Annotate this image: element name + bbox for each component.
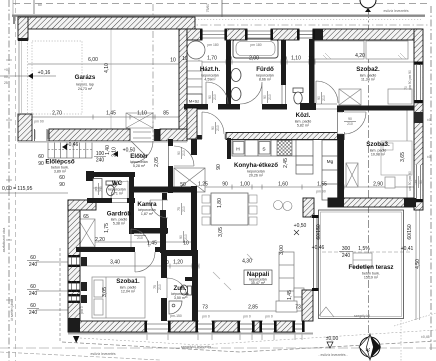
svg-text:1,55: 1,55	[317, 182, 327, 188]
svg-text:3,50 m²: 3,50 m²	[174, 296, 187, 300]
svg-text:3,00: 3,00	[279, 245, 285, 255]
svg-text:1,75: 1,75	[104, 223, 110, 233]
dim line gardrob y242	[80, 241, 196, 243]
svg-text:1,10: 1,10	[137, 111, 147, 117]
door furdo-niche gap	[282, 85, 286, 104]
svg-text:um 90 pm 90: um 90 pm 90	[408, 171, 412, 191]
svg-text:S: S	[262, 147, 265, 153]
svg-text:esővíz levezetés: esővíz levezetés	[383, 9, 408, 13]
svg-text:210: 210	[182, 150, 186, 156]
wall top seg1	[187, 29, 202, 40]
svg-text:pm-150: pm-150	[170, 314, 182, 318]
corner vline top left	[12, 0, 14, 16]
marker triangle SW	[73, 336, 79, 343]
basin unit wc	[93, 179, 102, 199]
wall szoba3 bottom cap	[328, 198, 344, 207]
garage door lines	[18, 40, 20, 113]
svg-text:20,26 m²: 20,26 m²	[249, 174, 264, 178]
svg-text:90: 90	[222, 182, 228, 188]
svg-text:Fedetlen terasz: Fedetlen terasz	[348, 264, 393, 271]
svg-text:Fürdő: Fürdő	[256, 66, 274, 73]
svg-text:1,40: 1,40	[105, 145, 111, 155]
svg-text:60/150: 60/150	[316, 224, 322, 240]
wall kamra north	[133, 187, 196, 193]
door gap szoba3	[338, 112, 345, 134]
svg-text:65: 65	[83, 214, 89, 220]
wall wc south / gardrob north	[87, 198, 135, 203]
kitchen corner cells	[296, 156, 313, 174]
window bottom 240	[237, 321, 254, 332]
wall front left segment	[49, 129, 130, 141]
dim line left windows horiz	[36, 261, 68, 263]
wall top seg3	[271, 29, 299, 40]
dim line terrace x416	[415, 210, 417, 320]
radiators left wall	[81, 257, 87, 303]
wall wc north	[92, 172, 135, 177]
diagonal terrain line 1	[62, 341, 436, 352]
svg-text:+0,50: +0,50	[294, 223, 307, 229]
desk szoba3	[385, 177, 395, 188]
wall garage left lower	[18, 114, 32, 141]
svg-text:4,20: 4,20	[355, 53, 365, 59]
svg-text:210: 210	[216, 125, 220, 131]
svg-text:10,98 m²: 10,98 m²	[371, 153, 386, 157]
svg-text:szegély kő: szegély kő	[354, 314, 370, 318]
svg-text:210: 210	[158, 284, 162, 290]
svg-text:- szegélykő levezetés -: - szegélykő levezetés -	[179, 345, 214, 349]
svg-text:+0,: +0,	[4, 68, 9, 72]
svg-text:60: 60	[30, 284, 36, 290]
wall eloter east	[168, 139, 173, 193]
door gardrob arc	[131, 229, 149, 247]
svg-text:10: 10	[183, 241, 189, 247]
svg-text:90: 90	[348, 117, 352, 121]
garage interior dotted inset	[32, 41, 82, 114]
wall gardrob top cap	[68, 200, 96, 210]
door hazth	[206, 82, 228, 104]
eave stub left	[13, 15, 15, 24]
svg-text:+0,46: +0,46	[66, 142, 79, 148]
dark panel right wall	[415, 112, 423, 123]
svg-text:aszfaltozott utca: aszfaltozott utca	[2, 228, 6, 253]
dim line garage vertical 4.10	[110, 29, 112, 129]
boiler hazth	[187, 41, 205, 59]
wall garage left upper	[18, 17, 28, 40]
sink furdo 1	[231, 69, 241, 82]
svg-text:90: 90	[211, 126, 215, 130]
property ticks	[6, 60, 12, 300]
toilet wc room	[106, 181, 115, 196]
wall right	[414, 29, 423, 210]
door zuh arc	[167, 278, 187, 298]
svg-text:1,80: 1,80	[217, 198, 223, 208]
wall gardrob east	[160, 210, 166, 253]
wall stub eloter NE	[191, 139, 197, 155]
thresholds	[35, 104, 343, 141]
svg-text:±0,: ±0,	[427, 118, 432, 122]
svg-text:3,65: 3,65	[400, 152, 406, 162]
svg-text:1,20: 1,20	[173, 260, 183, 266]
wall front right segment	[160, 129, 187, 141]
svg-text:2,90: 2,90	[373, 182, 383, 188]
dim line garage 6.00	[28, 63, 179, 65]
window bottom 262	[259, 321, 276, 332]
svg-text:10: 10	[192, 260, 198, 266]
svg-text:Garázs: Garázs	[75, 74, 96, 81]
svg-text:240: 240	[29, 310, 38, 316]
svg-text:10: 10	[281, 56, 287, 62]
terrace door glazing	[314, 217, 318, 290]
wall kozl/szoba2 west	[300, 103, 316, 110]
wall duct hazth south	[187, 108, 197, 139]
svg-text:3,05: 3,05	[102, 287, 108, 297]
bathtub	[233, 39, 278, 58]
window top 202	[202, 31, 225, 38]
footing shadow front	[18, 141, 187, 143]
svg-text:75/60: 75/60	[206, 4, 210, 13]
wall kitchen/szoba3	[338, 139, 345, 198]
window bottom 295	[292, 321, 304, 332]
svg-text:15,19 m²: 15,19 m²	[364, 276, 379, 280]
eave line top	[12, 15, 425, 17]
wall szoba2 bottom	[337, 106, 414, 111]
dim line left x36 vertical	[59, 248, 61, 342]
svg-text:um: um	[414, 179, 418, 184]
wall szoba1 north	[76, 247, 135, 252]
svg-text:M+Sz: M+Sz	[189, 99, 199, 104]
svg-text:90: 90	[177, 151, 181, 155]
svg-text:Kamra: Kamra	[137, 201, 157, 208]
svg-text:12,04 m²: 12,04 m²	[121, 290, 136, 294]
bed szoba2 twin	[311, 41, 408, 59]
shelves hazth	[187, 61, 202, 95]
svg-text:1,87 m²: 1,87 m²	[141, 212, 154, 216]
stools	[274, 201, 283, 210]
svg-text:750: 750	[99, 186, 103, 192]
wall wc east	[129, 172, 134, 198]
svg-text:+0,50: +0,50	[123, 148, 136, 154]
svg-text:pm 0: pm 0	[202, 315, 210, 319]
wall post szoba1/zuh	[155, 247, 162, 252]
wall cap garage left pier	[18, 38, 28, 41]
window right szoba2	[415, 62, 423, 104]
door front	[131, 141, 153, 163]
svg-text:100: 100	[96, 151, 105, 157]
plot dashed line top	[13, 3, 428, 5]
room label nappali boxed	[244, 270, 272, 285]
svg-text:50: 50	[180, 182, 186, 188]
svg-text:4,30: 4,30	[242, 259, 252, 265]
svg-text:00: 00	[4, 75, 8, 79]
svg-text:210: 210	[213, 94, 217, 100]
svg-text:- esővíz levezetés -: - esővíz levezetés -	[318, 353, 347, 357]
washer M+Sz	[186, 94, 202, 107]
eave line terrace right	[419, 207, 421, 320]
svg-text:2,85: 2,85	[248, 305, 258, 311]
door kitchen	[202, 112, 224, 134]
front door post	[154, 129, 160, 141]
svg-text:90: 90	[317, 96, 321, 100]
wall stub terrace door north	[303, 198, 314, 217]
svg-text:5,28 m²: 5,28 m²	[133, 164, 146, 168]
window top 247	[247, 31, 271, 38]
svg-text:210: 210	[322, 95, 326, 101]
door eloter arc	[174, 146, 194, 166]
dotted vertical terrace edge ext	[400, 320, 402, 361]
svg-text:Szoba1.: Szoba1.	[116, 278, 140, 285]
wall bit kitchen NW	[197, 135, 202, 140]
wall kamra east	[162, 193, 167, 234]
entry steps garage side	[126, 113, 153, 128]
wall bottom segment	[252, 321, 262, 332]
wall nappali SE corner	[302, 290, 313, 321]
wall zuh west lower	[161, 298, 167, 321]
svg-text:210: 210	[268, 94, 272, 100]
svg-text:3,40: 3,40	[110, 260, 120, 266]
compass bottom	[359, 334, 381, 360]
door szoba2	[316, 81, 338, 103]
svg-text:10: 10	[308, 56, 314, 62]
svg-text:75: 75	[153, 285, 157, 289]
eave dotted top	[18, 19, 421, 21]
shower zuh	[169, 301, 182, 314]
svg-text:Zuh.: Zuh.	[173, 285, 186, 292]
svg-text:210: 210	[347, 122, 353, 126]
diagonal terrain line 3	[0, 352, 160, 360]
svg-text:pm 0: pm 0	[80, 306, 84, 314]
top tick x34	[33, 0, 35, 14]
svg-text:2,45: 2,45	[283, 158, 289, 168]
door szoba1 arc	[135, 252, 155, 272]
svg-text:Közl.: Közl.	[296, 112, 311, 119]
terrace step marks bottom	[318, 307, 334, 317]
svg-text:60: 60	[30, 303, 36, 309]
wall bottom segment	[274, 321, 295, 332]
svg-text:1,60: 1,60	[278, 182, 288, 188]
svg-text:2,00: 2,00	[249, 56, 259, 62]
svg-text:10: 10	[226, 56, 232, 62]
window left wall 281	[69, 281, 80, 292]
svg-text:4,10: 4,10	[104, 63, 110, 73]
svg-text:210: 210	[182, 206, 186, 212]
svg-text:10: 10	[170, 58, 176, 64]
terrace steps	[353, 253, 372, 267]
wall kamra west	[129, 193, 134, 234]
door wc	[111, 181, 128, 198]
svg-text:73: 73	[202, 305, 208, 311]
svg-text:1,00: 1,00	[240, 182, 250, 188]
wall szoba3 bottom cap right	[404, 198, 416, 207]
svg-text:+0,16: +0,16	[38, 70, 51, 76]
svg-text:90: 90	[179, 235, 183, 239]
svg-text:300: 300	[342, 246, 351, 252]
svg-text:pm 180: pm 180	[207, 43, 218, 47]
toilet niche	[293, 88, 303, 104]
door gap kamra	[163, 200, 168, 218]
dim line upper rooms y62	[187, 61, 414, 63]
toilet zuh	[180, 285, 191, 295]
svg-text:5,82 m²: 5,82 m²	[297, 124, 310, 128]
door gap eloter	[169, 146, 174, 166]
wall niche/szoba2	[309, 39, 315, 110]
wall zuh west upper	[161, 250, 167, 278]
svg-text:4,59m²: 4,59m²	[204, 78, 216, 82]
svg-text:60: 60	[38, 154, 44, 160]
desk szoba2	[339, 89, 361, 105]
svg-text:75: 75	[138, 231, 142, 235]
svg-text:90: 90	[208, 95, 212, 99]
svg-text:2,05: 2,05	[154, 157, 160, 167]
window top 299	[299, 31, 313, 38]
svg-text:±0,: ±0,	[427, 155, 432, 159]
center axis vertical	[368, 10, 370, 333]
svg-text:6,00: 6,00	[88, 57, 98, 63]
svg-text:90: 90	[263, 95, 267, 99]
svg-text:24,73 m²: 24,73 m²	[78, 87, 93, 91]
cabinet eloter	[174, 168, 205, 192]
dim line szoba1 y266	[80, 265, 199, 267]
wall corridor east	[191, 186, 197, 253]
dresser szoba2 right	[388, 89, 412, 104]
window left wall 294	[69, 294, 80, 303]
footing shadow bottom	[68, 333, 313, 335]
svg-text:240: 240	[29, 262, 38, 268]
wall stub kitchen west	[227, 138, 231, 159]
svg-text:1,45: 1,45	[106, 111, 116, 117]
svg-text:Szoba3.: Szoba3.	[366, 141, 390, 148]
window bottom 147	[144, 321, 170, 332]
window left wall 255	[69, 255, 80, 267]
secondary line left	[15, 0, 17, 361]
svg-text:2,20: 2,20	[95, 237, 105, 243]
svg-text:+0,41: +0,41	[401, 246, 414, 252]
wall top seg4	[313, 29, 421, 40]
svg-text:Házt.h.: Házt.h.	[200, 66, 221, 73]
svg-text:60/150: 60/150	[407, 224, 413, 240]
door szoba3	[344, 112, 366, 134]
garage side door jambs	[35, 129, 48, 141]
north symbol top	[360, 0, 376, 12]
svg-text:60: 60	[38, 3, 42, 7]
wall top seg2	[225, 29, 247, 40]
property line left	[8, 0, 10, 361]
svg-text:±0,00: ±0,00	[326, 336, 339, 342]
svg-text:pm 180: pm 180	[250, 43, 261, 47]
sofa nappali	[276, 252, 304, 312]
svg-text:1,71 m²: 1,71 m²	[111, 192, 124, 196]
svg-text:±0,45: ±0,45	[421, 335, 430, 339]
garage axis dashdot	[152, 4, 154, 140]
window reveal ticks bottom	[147, 332, 302, 340]
dim line garage bottom 2.70/1.45/1.10/85	[28, 116, 179, 118]
svg-text:5,38 m²: 5,38 m²	[113, 222, 126, 226]
svg-text:90: 90	[216, 164, 222, 170]
svg-text:+0,46: +0,46	[312, 245, 325, 251]
svg-text:8,66 m²: 8,66 m²	[259, 78, 272, 82]
svg-text:240: 240	[29, 291, 38, 297]
svg-text:85: 85	[163, 111, 169, 117]
svg-text:30,47 m²: 30,47 m²	[251, 281, 266, 285]
dim line left 0.00	[0, 192, 68, 194]
svg-text:60: 60	[59, 175, 65, 181]
svg-text:esővíz levezetés: esővíz levezetés	[90, 352, 115, 356]
svg-text:2,10: 2,10	[112, 147, 118, 157]
wall zuh east / nappali west	[192, 250, 198, 321]
bed szoba1	[92, 277, 145, 318]
door gap wc south	[112, 198, 127, 202]
wall kitchen north	[226, 133, 344, 140]
svg-text:90: 90	[38, 161, 44, 167]
svg-text:3,05: 3,05	[218, 227, 224, 237]
wall bottom segment	[78, 321, 147, 332]
window bottom 198	[195, 321, 214, 332]
svg-text:10: 10	[337, 182, 343, 188]
roof axis top	[187, 24, 428, 26]
wall left lower	[68, 200, 80, 332]
wall kozl/szoba3	[337, 110, 344, 139]
wall joint I3 top	[315, 29, 323, 40]
stairs elolepcso	[48, 141, 92, 158]
svg-text:60: 60	[30, 255, 36, 261]
svg-text:25: 25	[4, 81, 8, 85]
svg-text:210: 210	[184, 234, 188, 240]
wall hazth bottom w	[184, 104, 208, 110]
svg-text:210: 210	[137, 236, 143, 240]
wall garage right	[179, 29, 187, 129]
svg-text:11,34 m²: 11,34 m²	[361, 78, 376, 82]
svg-text:73: 73	[295, 305, 301, 311]
wall bottom segment	[212, 321, 240, 332]
door gap right wall	[415, 165, 423, 202]
svg-text:pm 0: pm 0	[265, 315, 273, 319]
wardrobe gardrob	[78, 219, 95, 247]
svg-text:1,45: 1,45	[147, 241, 157, 247]
kitchen right counter	[322, 140, 338, 200]
svg-text:1,70: 1,70	[207, 56, 217, 62]
svg-text:WC: WC	[112, 180, 123, 187]
svg-text:10: 10	[163, 260, 169, 266]
dining table	[211, 193, 248, 225]
svg-text:2,70: 2,70	[52, 111, 62, 117]
terrace outline	[319, 210, 404, 319]
svg-text:1,45: 1,45	[287, 290, 293, 300]
diagonal terrain line 2	[80, 330, 436, 345]
wall garage top	[18, 17, 195, 29]
svg-text:pm 90: pm 90	[316, 190, 326, 194]
svg-text:Előlépcső: Előlépcső	[45, 159, 74, 166]
svg-text:1,5%: 1,5%	[358, 246, 370, 252]
svg-text:Mg: Mg	[327, 159, 334, 164]
svg-text:4,50: 4,50	[415, 259, 421, 269]
svg-text:pm: pm	[94, 186, 98, 191]
bed szoba3	[381, 141, 412, 175]
svg-text:H: H	[236, 147, 240, 153]
svg-text:240: 240	[96, 158, 105, 164]
svg-text:240: 240	[342, 253, 351, 259]
door kamra arc	[150, 200, 168, 218]
svg-text:pm 0: pm 0	[243, 315, 251, 319]
dim line middle y187	[180, 186, 414, 188]
property line right	[430, 6, 432, 350]
wall bottom segment	[168, 321, 198, 332]
bottom section line	[0, 347, 436, 349]
sink furdo 2	[231, 88, 241, 101]
svg-text:1,25: 1,25	[198, 182, 208, 188]
wall szoba3 bottom	[328, 198, 414, 207]
wall bottom SW corner	[68, 318, 80, 332]
diagonal dotted NE	[394, 313, 436, 326]
svg-text:75: 75	[177, 207, 181, 211]
